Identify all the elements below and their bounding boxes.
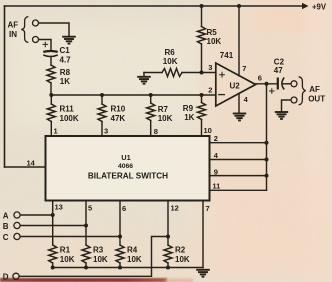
svg-text:100K: 100K <box>60 114 79 123</box>
svg-text:11: 11 <box>212 181 220 190</box>
svg-text:7: 7 <box>206 204 210 213</box>
resistor R3 10K <box>82 245 90 263</box>
svg-text:R2: R2 <box>175 246 186 255</box>
svg-text:R8: R8 <box>60 68 71 77</box>
ground R6 <box>143 73 145 76</box>
wire U1 pin11 <box>210 189 267 191</box>
resistor R11 100K <box>50 95 52 104</box>
svg-text:1: 1 <box>54 127 58 136</box>
svg-text:R11: R11 <box>60 105 75 114</box>
op-amp U2 741 triangle <box>216 63 256 106</box>
wire AF OUT bottom to ground <box>282 100 291 111</box>
capacitor C1 plates <box>43 50 57 53</box>
svg-text:9: 9 <box>214 167 218 176</box>
resistor R6 10K horizontal <box>144 72 162 74</box>
svg-text:C1: C1 <box>60 46 71 55</box>
svg-text:IN: IN <box>9 30 17 39</box>
svg-text:AF: AF <box>8 21 19 30</box>
svg-text:1K: 1K <box>184 113 194 122</box>
svg-text:AF: AF <box>309 85 320 94</box>
node rail dot opamp pin7 <box>237 4 241 8</box>
wire C1 to R8 <box>50 57 52 66</box>
wire R8 to summing node <box>50 83 52 95</box>
wire U1 pin6 column <box>119 201 121 246</box>
svg-text:10K: 10K <box>93 255 108 264</box>
ground-R6 <box>137 77 151 84</box>
svg-text:10K: 10K <box>158 114 173 123</box>
svg-text:7: 7 <box>242 64 246 73</box>
wire AF IN bottom to C1 <box>39 40 51 50</box>
resistor R4 10K <box>116 245 124 263</box>
svg-text:5: 5 <box>88 204 92 213</box>
svg-text:R6: R6 <box>165 48 176 57</box>
ground AF-IN <box>62 37 76 44</box>
resistor R9 1K <box>201 95 203 103</box>
svg-text:2: 2 <box>208 85 212 94</box>
svg-text:13: 13 <box>55 203 63 212</box>
+9V rail <box>5 5 304 7</box>
resistor R8 1K <box>47 65 55 83</box>
resistor R2 10K <box>164 245 172 263</box>
AF IN brace <box>21 17 28 43</box>
wire left VDD rail <box>4 6 6 167</box>
svg-text:U1: U1 <box>121 153 130 162</box>
svg-text:47: 47 <box>274 66 283 75</box>
svg-text:A: A <box>3 211 9 220</box>
svg-text:R7: R7 <box>158 105 169 114</box>
svg-text:3: 3 <box>208 63 212 72</box>
wire pin14 to U1 <box>5 166 46 168</box>
wire opamp pin7 to +9V <box>238 6 240 76</box>
svg-text:R5: R5 <box>207 28 218 37</box>
resistor R10 47K <box>101 95 103 104</box>
capacitor C2 47 <box>277 78 279 90</box>
svg-text:R4: R4 <box>127 246 138 255</box>
wire U1 pin9 <box>210 175 267 177</box>
node dot R7 <box>149 93 153 97</box>
svg-text:R9: R9 <box>183 104 194 113</box>
page-edge red strip <box>0 278 167 282</box>
svg-text:6: 6 <box>258 74 262 83</box>
AF OUT brace <box>299 77 306 105</box>
svg-text:4.7: 4.7 <box>60 56 72 65</box>
AF OUT top terminal <box>291 81 297 87</box>
svg-text:R1: R1 <box>60 246 71 255</box>
AF IN bottom terminal <box>33 37 39 43</box>
wire U1 pin13 column <box>52 201 54 246</box>
wire U1 pin2 <box>210 142 267 144</box>
node dot output <box>265 82 269 86</box>
svg-text:10K: 10K <box>175 255 190 264</box>
wire U1 pin7 column to ground rail <box>202 201 204 268</box>
svg-text:6: 6 <box>122 204 126 213</box>
svg-text:10K: 10K <box>127 255 142 264</box>
wire pin3 node <box>182 72 216 74</box>
svg-text:OUT: OUT <box>308 95 325 104</box>
svg-text:R10: R10 <box>111 105 126 114</box>
svg-text:B: B <box>3 222 9 231</box>
opamp + input mark <box>220 72 225 77</box>
resistor R1 10K <box>49 245 57 263</box>
node dot R5/pin3 <box>200 71 204 75</box>
svg-text:U2: U2 <box>230 82 241 91</box>
ground AF-OUT <box>275 112 288 119</box>
wire C2 to AF OUT <box>284 83 291 85</box>
svg-text:3: 3 <box>104 127 108 136</box>
node dot R10 <box>100 93 104 97</box>
svg-text:C: C <box>3 233 9 242</box>
wire opamp output <box>256 83 278 85</box>
wire AF IN top to ground <box>39 23 69 36</box>
opamp - input mark <box>219 94 225 96</box>
wire U1 pin12 column <box>167 201 169 246</box>
wire ground rail <box>53 267 203 269</box>
wire summing node rail <box>51 94 216 96</box>
svg-text:12: 12 <box>171 204 179 213</box>
IC U1 4066 bilateral switch <box>46 136 210 201</box>
resistor R7 10K <box>150 95 152 103</box>
wire U1 pin5 column <box>85 201 87 246</box>
svg-text:4066: 4066 <box>118 163 133 170</box>
svg-text:10K: 10K <box>163 57 178 66</box>
svg-text:BILATERAL SWITCH: BILATERAL SWITCH <box>88 171 168 180</box>
AF IN top terminal <box>33 20 39 26</box>
svg-text:+9V: +9V <box>312 2 327 11</box>
ground bottom rail <box>196 270 210 277</box>
AF OUT bottom terminal <box>291 97 297 103</box>
svg-text:1K: 1K <box>60 77 70 86</box>
svg-text:10K: 10K <box>207 37 222 46</box>
svg-text:47K: 47K <box>111 114 126 123</box>
node dot R8/R11 <box>49 93 53 97</box>
ground op-amp pin4 <box>233 114 246 121</box>
wire output bus vertical <box>266 84 268 191</box>
wire U1 pin4 <box>210 159 267 161</box>
svg-text:741: 741 <box>220 51 234 60</box>
svg-text:R3: R3 <box>93 246 104 255</box>
svg-text:10K: 10K <box>60 255 75 264</box>
svg-text:D: D <box>3 272 9 281</box>
capacitor C1 4.7 polarity + <box>43 42 48 47</box>
svg-text:14: 14 <box>27 159 36 168</box>
svg-text:10: 10 <box>204 126 212 135</box>
svg-text:2: 2 <box>214 134 218 143</box>
node dot R9 <box>200 93 204 97</box>
svg-text:8: 8 <box>154 127 158 136</box>
wire opamp pin4 to ground <box>238 94 240 113</box>
resistor R5 10K <box>201 6 203 27</box>
C2 polarity + <box>270 89 275 94</box>
node rail dot R5 <box>200 4 204 8</box>
